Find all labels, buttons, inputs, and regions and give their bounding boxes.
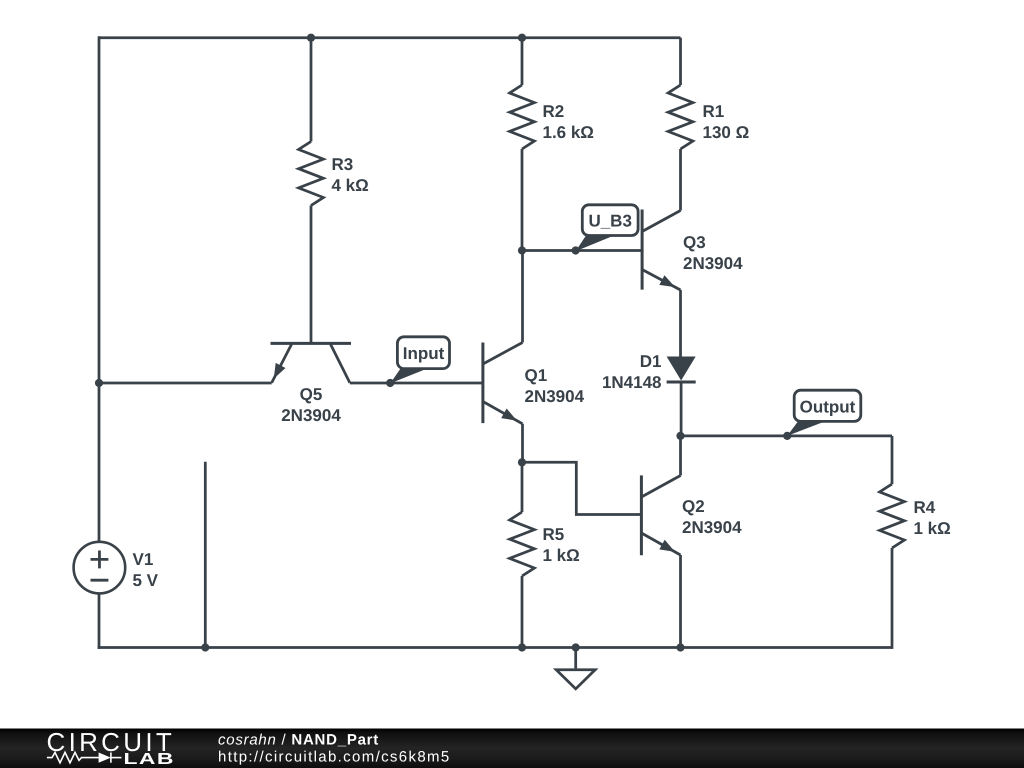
flag Input xyxy=(390,337,449,384)
Q3 emitter arrow xyxy=(659,275,675,287)
node left rail input xyxy=(95,379,103,387)
svg-text:Output: Output xyxy=(800,398,856,417)
wire output net xyxy=(681,435,893,438)
svg-text:R1: R1 xyxy=(703,102,725,121)
node input callout xyxy=(386,379,394,387)
svg-text:Q3: Q3 xyxy=(683,233,706,252)
wire Q2 base net xyxy=(522,462,641,514)
svg-text:1 kΩ: 1 kΩ xyxy=(543,546,580,565)
svg-text:R4: R4 xyxy=(914,498,936,517)
svg-text:D1: D1 xyxy=(640,352,662,371)
voltage source V1 xyxy=(74,542,126,594)
node stub bottom xyxy=(201,643,209,651)
svg-text:http://circuitlab.com/cs6k8m5: http://circuitlab.com/cs6k8m5 xyxy=(218,749,451,766)
svg-text:1.6 kΩ: 1.6 kΩ xyxy=(543,123,594,142)
resistor R5 xyxy=(510,462,535,647)
svg-text:2N3904: 2N3904 xyxy=(525,387,585,406)
svg-text:R2: R2 xyxy=(543,102,565,121)
svg-text:R3: R3 xyxy=(332,155,354,174)
wire stub xyxy=(204,462,207,648)
transistor Q3 xyxy=(642,210,680,357)
logo resistor-diode glyph xyxy=(47,752,122,762)
svg-text:4 kΩ: 4 kΩ xyxy=(332,176,369,195)
node dots xyxy=(95,34,791,652)
svg-text:2N3904: 2N3904 xyxy=(682,518,742,537)
wire input right segment xyxy=(350,382,483,385)
resistor R3 xyxy=(299,38,324,342)
Q5 emitter arrow xyxy=(274,363,286,379)
wire left rail xyxy=(98,36,101,542)
wire top rail xyxy=(99,36,681,39)
node U_B3 left xyxy=(518,246,526,254)
footer bar xyxy=(0,729,1024,768)
node Q2 emitter bottom xyxy=(676,643,684,651)
svg-text:2N3904: 2N3904 xyxy=(281,406,341,425)
svg-text:2N3904: 2N3904 xyxy=(683,254,743,273)
wire V1 bottom lead xyxy=(98,593,101,649)
transistor Q5 xyxy=(271,343,352,382)
svg-text:130 Ω: 130 Ω xyxy=(703,123,750,142)
Q2 emitter arrow xyxy=(659,540,675,552)
diode D1 xyxy=(667,357,696,436)
svg-text:5 V: 5 V xyxy=(133,571,159,590)
svg-text:1 kΩ: 1 kΩ xyxy=(914,519,951,538)
transistor Q1 xyxy=(483,251,523,463)
node R3 top xyxy=(307,34,315,42)
wire input left segment xyxy=(99,382,272,385)
flag U_B3 xyxy=(576,205,639,251)
flag Output xyxy=(787,390,861,436)
node ground xyxy=(572,643,580,651)
node output callout xyxy=(783,432,791,440)
svg-text:U_B3: U_B3 xyxy=(588,212,631,231)
svg-text:V1: V1 xyxy=(133,550,154,569)
resistor R2 xyxy=(510,38,535,251)
wire U_B3 net xyxy=(522,249,642,252)
svg-text:Q5: Q5 xyxy=(300,385,323,404)
resistor R4 xyxy=(880,436,905,649)
svg-text:cosrahn / NAND_Part: cosrahn / NAND_Part xyxy=(218,732,379,749)
node output left xyxy=(676,432,684,440)
node R2 top xyxy=(518,34,526,42)
transistor Q2 xyxy=(641,436,680,648)
Q1 emitter arrow xyxy=(501,409,517,421)
svg-text:Input: Input xyxy=(403,344,445,363)
svg-text:1N4148: 1N4148 xyxy=(602,373,662,392)
node U_B3 callout xyxy=(572,246,580,254)
node Q1 emitter / R5 xyxy=(518,458,526,466)
wire bottom rail xyxy=(98,646,892,649)
ground xyxy=(556,648,595,689)
svg-text:R5: R5 xyxy=(543,525,565,544)
svg-text:Q2: Q2 xyxy=(682,497,705,516)
svg-text:Q1: Q1 xyxy=(525,366,548,385)
resistor R1 xyxy=(668,38,693,211)
node R5 bottom xyxy=(518,643,526,651)
svg-text:LAB: LAB xyxy=(124,751,175,768)
